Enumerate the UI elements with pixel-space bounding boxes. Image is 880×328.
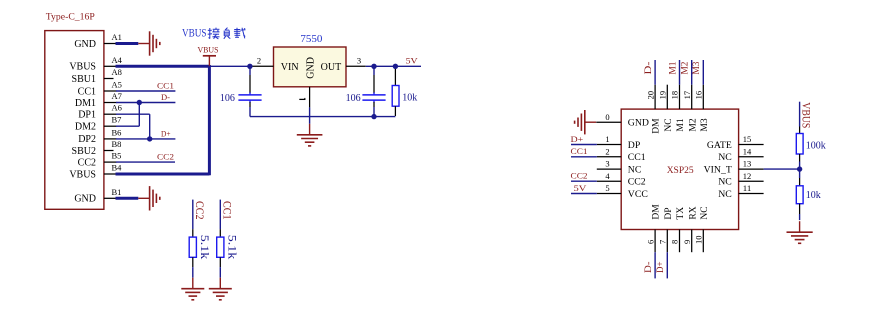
svg-text:DP: DP (664, 207, 674, 219)
svg-text:VBUS: VBUS (69, 62, 96, 73)
svg-text:10: 10 (694, 236, 704, 245)
svg-text:GATE: GATE (707, 140, 732, 151)
svg-text:3: 3 (357, 56, 361, 66)
svg-text:OUT: OUT (321, 62, 342, 73)
svg-text:CC1: CC1 (157, 80, 174, 90)
svg-text:100k: 100k (806, 140, 826, 151)
svg-text:CC1: CC1 (78, 86, 96, 97)
svg-text:20: 20 (645, 91, 655, 100)
svg-text:B4: B4 (112, 163, 123, 173)
svg-text:A7: A7 (112, 91, 122, 101)
svg-text:5: 5 (605, 183, 609, 193)
svg-text:13: 13 (743, 159, 752, 169)
svg-text:5.1k: 5.1k (198, 235, 212, 259)
svg-text:106: 106 (346, 93, 361, 104)
svg-text:D+: D+ (161, 128, 171, 138)
svg-text:12: 12 (743, 171, 752, 181)
svg-text:DM: DM (652, 118, 662, 134)
svg-text:2: 2 (605, 146, 609, 156)
svg-text:D+: D+ (655, 262, 665, 274)
svg-text:M2: M2 (688, 118, 698, 131)
svg-text:B1: B1 (112, 187, 122, 197)
svg-text:NC: NC (718, 177, 732, 188)
svg-text:106: 106 (220, 93, 235, 104)
svg-text:RX: RX (688, 206, 698, 219)
svg-text:VBUS: VBUS (182, 26, 207, 40)
svg-text:CC2: CC2 (193, 201, 207, 220)
svg-text:D-: D- (643, 62, 653, 75)
svg-text:CC2: CC2 (78, 157, 96, 168)
svg-text:5.1k: 5.1k (225, 235, 239, 259)
svg-text:M2: M2 (680, 62, 690, 75)
svg-text:M1: M1 (667, 62, 677, 75)
svg-text:NC: NC (664, 118, 674, 131)
svg-text:NC: NC (628, 165, 642, 176)
svg-text:2: 2 (257, 56, 261, 66)
svg-text:11: 11 (743, 183, 752, 193)
svg-text:VCC: VCC (628, 189, 648, 200)
svg-text:DM1: DM1 (75, 98, 96, 109)
svg-text:4: 4 (605, 171, 610, 181)
svg-text:A8: A8 (112, 67, 122, 77)
svg-text:A6: A6 (112, 103, 122, 113)
svg-text:A5: A5 (112, 80, 122, 90)
svg-text:CC2: CC2 (628, 177, 646, 188)
svg-text:A4: A4 (112, 55, 123, 65)
svg-text:5V: 5V (574, 183, 588, 193)
svg-text:VIN: VIN (281, 62, 299, 73)
svg-text:GND: GND (74, 39, 96, 50)
svg-text:CC1: CC1 (221, 201, 235, 220)
svg-text:10k: 10k (806, 190, 821, 201)
svg-text:SBU1: SBU1 (72, 74, 96, 85)
svg-text:VBUS: VBUS (198, 45, 219, 55)
svg-text:B7: B7 (112, 115, 122, 125)
svg-text:19: 19 (658, 91, 668, 100)
svg-text:CC2: CC2 (157, 152, 174, 162)
svg-text:NC: NC (718, 152, 732, 163)
svg-text:18: 18 (670, 91, 680, 100)
svg-text:D-: D- (161, 92, 170, 102)
svg-text:M3: M3 (700, 118, 710, 131)
svg-text:Type-C_16P: Type-C_16P (46, 12, 96, 23)
svg-text:DP: DP (628, 140, 641, 151)
svg-text:3: 3 (605, 159, 609, 169)
svg-text:7: 7 (658, 240, 668, 244)
svg-text:VBUS: VBUS (800, 102, 814, 128)
svg-text:GND: GND (628, 118, 649, 129)
svg-text:XSP25: XSP25 (667, 166, 694, 176)
svg-text:6: 6 (645, 240, 655, 244)
svg-text:TX: TX (676, 207, 686, 220)
svg-text:CC1: CC1 (571, 146, 588, 156)
svg-text:SBU2: SBU2 (72, 146, 96, 157)
svg-text:D-: D- (643, 262, 653, 274)
svg-text:15: 15 (743, 134, 752, 144)
svg-text:GND: GND (74, 194, 96, 205)
svg-text:16: 16 (694, 91, 704, 100)
svg-text:14: 14 (743, 146, 752, 156)
svg-text:CC2: CC2 (571, 171, 588, 181)
svg-text:10k: 10k (402, 93, 417, 104)
svg-text:A1: A1 (112, 32, 122, 42)
svg-text:GND: GND (305, 57, 316, 79)
svg-text:9: 9 (682, 240, 692, 244)
svg-text:1: 1 (605, 134, 609, 144)
svg-text:B8: B8 (112, 139, 122, 149)
svg-text:VIN_T: VIN_T (704, 165, 732, 176)
svg-text:B5: B5 (112, 151, 122, 161)
svg-text:B6: B6 (112, 127, 122, 137)
svg-text:NC: NC (700, 206, 710, 219)
svg-text:M1: M1 (676, 118, 686, 131)
svg-text:CC1: CC1 (628, 152, 646, 163)
svg-text:DM2: DM2 (75, 122, 96, 133)
svg-text:DP1: DP1 (78, 110, 96, 121)
svg-text:0: 0 (605, 112, 609, 122)
svg-text:8: 8 (670, 240, 680, 244)
svg-text:VBUS: VBUS (69, 169, 96, 180)
svg-text:5V: 5V (406, 56, 419, 66)
svg-text:D+: D+ (571, 134, 584, 144)
svg-text:DM: DM (652, 204, 662, 220)
svg-text:M3: M3 (691, 61, 701, 75)
svg-text:NC: NC (718, 189, 732, 200)
svg-text:17: 17 (682, 91, 692, 100)
svg-text:7550: 7550 (300, 33, 323, 45)
svg-text:DP2: DP2 (78, 134, 96, 145)
